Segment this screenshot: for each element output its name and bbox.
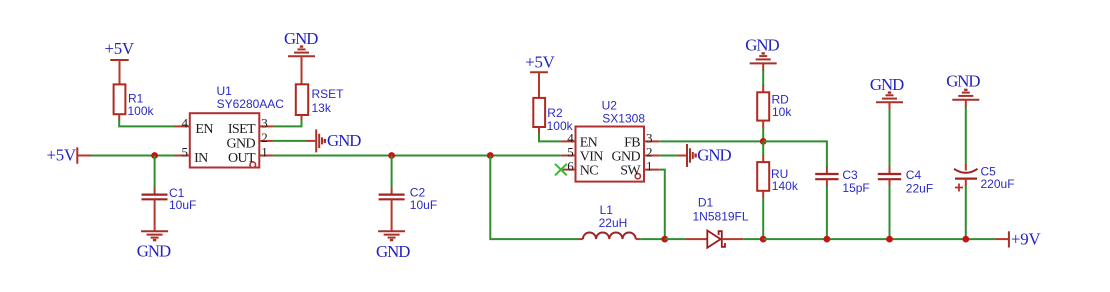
resistor R1 <box>114 84 155 118</box>
U1 pin 3 ISET <box>228 115 274 136</box>
svg-text:+5V: +5V <box>47 146 76 165</box>
svg-text:GND: GND <box>376 242 410 261</box>
svg-text:RSET: RSET <box>312 87 345 101</box>
junction at C1 <box>151 152 158 159</box>
U2 pin 4 EN <box>561 130 598 150</box>
svg-text:GND: GND <box>946 71 980 90</box>
svg-text:GND: GND <box>284 29 318 48</box>
U1 pin 1 OUT <box>228 145 273 167</box>
svg-text:3: 3 <box>261 115 268 130</box>
svg-text:1N5819FL: 1N5819FL <box>693 210 749 224</box>
ground sideways at U1 pin2 <box>273 129 361 152</box>
svg-text:GND: GND <box>226 136 255 151</box>
wire C1 top <box>154 156 156 195</box>
wire main +5V rail from port to U1 IN <box>92 155 175 157</box>
svg-text:EN: EN <box>195 122 213 137</box>
ground sideways at U2 pin2 <box>659 144 731 167</box>
resistor R2 <box>533 98 573 133</box>
svg-text:SW: SW <box>620 164 641 179</box>
svg-text:VIN: VIN <box>580 150 604 165</box>
svg-text:10uF: 10uF <box>169 198 196 212</box>
svg-text:GND: GND <box>697 145 731 164</box>
svg-text:2: 2 <box>646 145 653 160</box>
wire L1 to node <box>640 238 665 240</box>
wire node to D1 anode <box>665 238 708 240</box>
svg-text:U2: U2 <box>602 98 618 112</box>
wire C4 bottom to rail <box>889 179 891 239</box>
U2 pin 1 SW <box>620 159 659 179</box>
svg-text:220uF: 220uF <box>981 177 1015 191</box>
resistor RSET <box>296 84 344 115</box>
net port GND above RSET <box>284 29 318 56</box>
capacitor C5 polarized <box>954 164 1015 191</box>
svg-text:C4: C4 <box>906 168 922 182</box>
wire branch down to inductor <box>490 156 578 240</box>
svg-text:15pF: 15pF <box>842 181 869 195</box>
junction at D1/RU output node <box>760 236 767 243</box>
svg-text:C3: C3 <box>842 168 858 182</box>
svg-text:1: 1 <box>646 159 653 174</box>
svg-text:L1: L1 <box>600 203 614 217</box>
wire C2 top <box>391 156 393 195</box>
svg-text:FB: FB <box>624 135 640 150</box>
net port +5V (left input) <box>47 146 93 165</box>
svg-text:SY6280AAC: SY6280AAC <box>217 97 285 111</box>
junction at C4 rail node <box>886 236 893 243</box>
svg-text:5: 5 <box>182 145 189 160</box>
resistor RD <box>757 92 792 120</box>
svg-text:IN: IN <box>194 151 208 166</box>
inductor L1 <box>579 203 641 239</box>
wire GND to RSET top <box>301 56 303 84</box>
wire R1 to U1 EN pin4 <box>119 114 174 126</box>
svg-text:GND: GND <box>745 35 779 54</box>
svg-text:GND: GND <box>327 131 361 150</box>
svg-text:22uF: 22uF <box>906 182 933 196</box>
diode D1 1N5819FL <box>693 196 749 248</box>
capacitor C2 <box>379 186 438 212</box>
capacitor C4 <box>878 168 933 196</box>
svg-text:U1: U1 <box>217 84 233 98</box>
junction at C3 rail node <box>824 236 831 243</box>
svg-text:10uF: 10uF <box>410 198 437 212</box>
U1 pin 5 IN <box>175 145 209 167</box>
wire FB to divider junction <box>659 140 763 142</box>
svg-text:D1: D1 <box>698 196 714 210</box>
svg-text:6: 6 <box>567 159 574 174</box>
svg-text:GND: GND <box>870 75 904 94</box>
junction at L1/SW/D1 node <box>661 236 668 243</box>
wire GND to C4 top <box>889 102 891 174</box>
IC U2 SX1308 body <box>576 98 646 181</box>
svg-text:OUT: OUT <box>228 151 256 166</box>
svg-text:4: 4 <box>182 115 189 130</box>
wire FB node to C3 top <box>763 141 827 174</box>
svg-text:1: 1 <box>261 145 268 160</box>
wire D1 cathode to output node <box>722 238 763 240</box>
svg-text:GND: GND <box>137 242 171 261</box>
capacitor C1 <box>142 186 197 212</box>
wire U1 OUT rail to U2 VIN <box>273 155 560 157</box>
junction at C2 <box>388 152 395 159</box>
wire R2 bottom to U2 EN <box>539 127 561 141</box>
junction at C5 rail node <box>962 236 969 243</box>
svg-text:22uH: 22uH <box>599 216 628 230</box>
wire FB junction to RU top <box>762 141 764 162</box>
net port +9V output <box>995 229 1040 248</box>
ground below C2 <box>376 231 410 261</box>
capacitor C3 <box>815 168 870 195</box>
svg-text:4: 4 <box>567 130 574 145</box>
wire U2 SW down to inductor output node <box>659 170 665 240</box>
wire C2 bottom to ground <box>391 199 393 231</box>
net port GND above RD <box>745 35 779 63</box>
svg-text:+5V: +5V <box>525 53 554 72</box>
wire output rail to +9V port <box>763 238 995 240</box>
svg-text:+5V: +5V <box>105 39 134 58</box>
junction at SW branch node <box>487 152 494 159</box>
junction at FB divider node <box>760 138 767 145</box>
IC U1 SY6280AAC body <box>190 84 285 168</box>
U2 pin 3 FB <box>624 130 659 150</box>
net port +5V above R1 <box>105 39 134 85</box>
ground below C1 <box>137 231 171 260</box>
svg-text:EN: EN <box>580 135 598 150</box>
wire C3 bottom to rail <box>826 179 828 239</box>
wire C1 bottom to ground <box>154 199 156 231</box>
svg-text:3: 3 <box>646 130 653 145</box>
svg-text:GND: GND <box>611 150 640 165</box>
wire RSET bottom to U1 ISET pin3 <box>273 115 301 126</box>
wire RD bottom to FB junction <box>762 121 764 142</box>
svg-text:140k: 140k <box>772 179 799 193</box>
U2 pin 2 GND <box>611 145 659 165</box>
wire RU bottom to output rail <box>762 191 764 239</box>
wire C5 bottom to rail <box>965 179 967 240</box>
svg-text:+9V: +9V <box>1011 229 1040 248</box>
net port GND above C4 <box>870 75 904 102</box>
wire GND to RD top <box>762 63 764 92</box>
svg-text:5: 5 <box>567 145 574 160</box>
svg-text:100k: 100k <box>128 104 155 118</box>
svg-text:ISET: ISET <box>228 122 256 137</box>
net port +5V above R2 <box>525 53 554 98</box>
svg-text:10k: 10k <box>772 105 792 119</box>
U1 pin 2 GND <box>226 130 273 152</box>
U2 pin 6 NC with no-connect X <box>555 159 598 179</box>
net port GND above C5 <box>946 71 980 100</box>
svg-text:NC: NC <box>580 164 599 179</box>
resistor RU <box>757 162 799 193</box>
wire GND to C5 top <box>965 100 967 171</box>
svg-text:13k: 13k <box>312 101 332 115</box>
svg-text:2: 2 <box>261 130 268 145</box>
U1 pin 4 EN <box>175 115 214 136</box>
svg-text:SX1308: SX1308 <box>602 112 645 126</box>
U2 pin 5 VIN <box>561 145 604 165</box>
